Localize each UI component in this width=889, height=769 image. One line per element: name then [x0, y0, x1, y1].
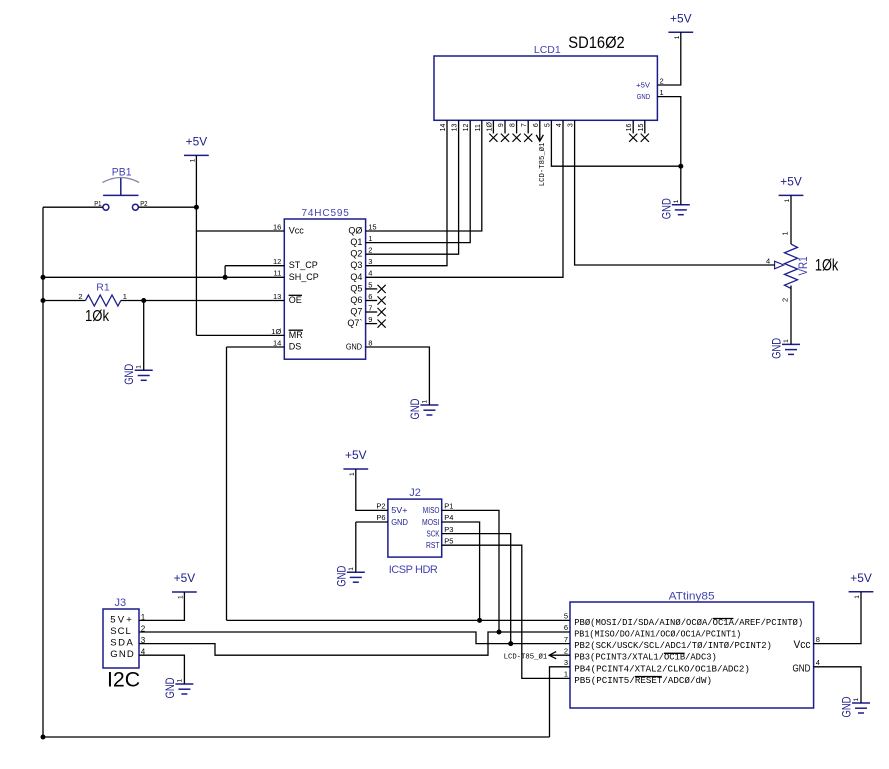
VR1 pin number 1 (rotated): [781, 231, 790, 235]
LCD1 pin number 2: [660, 76, 664, 85]
J3 pin number 2: [141, 624, 146, 633]
svg-text:SCK: SCK: [427, 529, 441, 538]
+5V supply symbol above 74HC595: [184, 135, 209, 163]
node LCD ground join: [678, 164, 683, 169]
wire left vertical bus: [42, 207, 44, 737]
+5V supply symbol at J2: [343, 448, 368, 476]
svg-text:GND: GND: [346, 342, 362, 352]
svg-text:SD16Ø2: SD16Ø2: [568, 33, 624, 52]
svg-text:GND: GND: [637, 92, 651, 101]
svg-text:J3: J3: [115, 597, 127, 609]
svg-text:+5V: +5V: [345, 448, 367, 462]
svg-text:P6: P6: [376, 513, 385, 522]
no-connect X on LCD1 pin 10: [489, 120, 497, 142]
74HC595 right pin number 1: [368, 234, 372, 243]
svg-text:1: 1: [781, 231, 790, 235]
svg-text:4: 4: [368, 269, 372, 278]
wire J3 SCL pin 2 to ATtiny85 PB2: [139, 632, 570, 644]
+5V supply symbol at J3: [172, 571, 197, 599]
wire bus to R1 pin 2: [43, 300, 86, 302]
svg-text:15: 15: [638, 124, 645, 132]
wire Q1 pin 1 to LCD1 pin 12: [366, 120, 471, 242]
node PB0 / MOSI: [477, 618, 482, 623]
svg-text:VR1: VR1: [798, 257, 810, 276]
wire +5V to 74HC595 MR pin 10: [196, 334, 284, 336]
wire J2 RST P5 to ATtiny85 PB5: [442, 545, 570, 678]
svg-text:P1: P1: [444, 502, 453, 511]
svg-text:Q5: Q5: [350, 283, 362, 293]
svg-text:SH_CP: SH_CP: [289, 272, 319, 282]
wire J2 MISO P1 to ATtiny85 PB1: [442, 510, 499, 632]
svg-text:Vcc: Vcc: [289, 226, 305, 236]
svg-text:5V+: 5V+: [391, 506, 408, 515]
svg-text:PB2(SCK/USCK/SCL/ADC1/TØ/INTØ/: PB2(SCK/USCK/SCL/ADC1/TØ/INTØ/PCINT2): [574, 640, 772, 651]
wire PB1 P2 to +5V: [138, 206, 196, 208]
J2 pin names: [391, 506, 440, 550]
74HC595 right pin number 4: [368, 269, 372, 278]
wire Q3 pin 3 to LCD1 pin 14: [366, 120, 447, 265]
wire 74HC595 GND pin 8 to ground: [366, 347, 430, 405]
svg-text:1: 1: [853, 698, 860, 702]
svg-text:Q7: Q7: [350, 307, 362, 317]
svg-text:1: 1: [674, 35, 681, 39]
svg-text:MISO: MISO: [423, 506, 440, 515]
ground symbol at ATtiny85: [842, 697, 871, 718]
74HC595 right pin number 6: [368, 292, 372, 301]
svg-text:2: 2: [78, 292, 82, 301]
node bottom corner: [41, 735, 46, 740]
svg-text:5V+: 5V+: [110, 614, 132, 625]
svg-text:1: 1: [421, 400, 428, 404]
svg-text:7: 7: [521, 123, 528, 127]
svg-text:1: 1: [348, 567, 355, 571]
svg-text:MR: MR: [289, 330, 303, 340]
svg-text:13: 13: [273, 292, 281, 301]
wire PB1 P1 to left bus: [43, 206, 103, 208]
svg-text:LCD-T85_Ø1: LCD-T85_Ø1: [504, 652, 548, 661]
wire 74HC595 DS pin 14: [227, 346, 285, 348]
svg-text:1Øk: 1Øk: [815, 255, 839, 274]
VR1 value 10k: [815, 255, 839, 274]
net label LCD-T85_01 at LCD1 pin 6 (rotated, with arrow): [536, 120, 547, 186]
LCD1 pin labels +5V and GND inside body: [636, 80, 651, 101]
wire Q2 pin 2 to LCD1 pin 13: [366, 120, 459, 254]
ground symbol at R1: [124, 364, 153, 385]
ground symbol at J2: [336, 566, 365, 587]
wire +5V to J2 P2: [356, 469, 388, 510]
svg-text:5: 5: [544, 123, 551, 127]
svg-text:3: 3: [568, 123, 575, 127]
svg-text:+5V: +5V: [186, 135, 208, 149]
LCD1 pin number 12 (rotated): [463, 124, 470, 132]
J3 pin number 3: [141, 636, 146, 645]
svg-text:+5V: +5V: [670, 11, 692, 25]
svg-text:SCL: SCL: [110, 626, 131, 637]
svg-text:2: 2: [660, 76, 664, 85]
wire R1 pin 1 to 74HC595 OE pin 13: [121, 300, 285, 302]
J2 pin designator P5: [444, 536, 453, 545]
svg-text:11: 11: [274, 269, 282, 278]
ATtiny85 left pin number 6: [564, 623, 568, 632]
LCD1 pin number 10 (rotated): [486, 122, 493, 132]
svg-text:LCD1: LCD1: [534, 44, 561, 56]
svg-text:GND: GND: [793, 663, 811, 674]
no-connect X on 74HC595 output: [366, 320, 386, 328]
svg-text:2: 2: [781, 298, 790, 302]
74HC595 right pin number 9: [368, 315, 372, 324]
wire J3 SDA pin 3 to ATtiny85 PB1: [139, 632, 570, 655]
74HC595 left pin number 10: [271, 327, 281, 336]
74HC595 right pin number 2: [368, 246, 372, 255]
wire J2 ground drop: [355, 522, 357, 572]
svg-text:RST: RST: [426, 541, 440, 550]
svg-text:7: 7: [564, 635, 568, 644]
LCD1 pin number 1: [660, 88, 664, 97]
svg-text:DS: DS: [289, 342, 302, 352]
LCD1 pin number 3 (rotated): [568, 123, 575, 127]
74HC595 right pin number 8: [368, 338, 372, 347]
wire J3 5V+ pin 1 to +5V: [139, 592, 184, 620]
wire LCD1 pin 3 to VR1 wiper: [575, 120, 775, 265]
PB1 pin designator P1: [94, 201, 101, 208]
svg-text:1Øk: 1Øk: [85, 308, 110, 325]
74HC595 right pin number 15: [368, 222, 376, 231]
svg-text:GND: GND: [842, 697, 854, 718]
wire R1 node to ground: [143, 301, 145, 371]
no-connect X on LCD1 pin 15: [641, 120, 649, 142]
LCD module LCD1 SD1602 body: [434, 44, 657, 120]
+5V supply symbol at LCD1: [668, 11, 693, 39]
LCD1 pin number 14 (rotated): [440, 124, 447, 132]
svg-text:GND: GND: [165, 678, 177, 699]
microcontroller ATtiny85 body: [570, 591, 814, 708]
74HC595 left pin number 13: [273, 292, 281, 301]
svg-text:QØ: QØ: [348, 226, 362, 236]
svg-text:Q1: Q1: [350, 237, 362, 247]
no-connect X on LCD1 pin 9: [501, 120, 509, 142]
wire Q4 pin 4 to LCD1 pin 4: [366, 120, 563, 277]
J2 pin designator P1: [444, 502, 453, 511]
svg-text:R1: R1: [96, 281, 110, 293]
svg-text:3: 3: [368, 257, 372, 266]
shift register 74HC595 body: [284, 208, 365, 359]
wire LCD1 pin 1 to ground: [657, 97, 680, 205]
svg-text:1: 1: [189, 158, 196, 162]
svg-text:1: 1: [784, 198, 791, 202]
svg-text:GND: GND: [772, 338, 784, 359]
svg-text:PBØ(MOSI/DI/SDA/AINØ/OCØA/OC1A: PBØ(MOSI/DI/SDA/AINØ/OCØA/OC1A/AREF/PCIN…: [574, 617, 803, 628]
svg-text:1: 1: [177, 595, 184, 599]
svg-text:12: 12: [273, 257, 281, 266]
svg-text:ST_CP: ST_CP: [289, 260, 318, 270]
svg-text:PB4(PCINT4/XTAL2/CLKO/OC1B/ADC: PB4(PCINT4/XTAL2/CLKO/OC1B/ADC2): [574, 663, 750, 674]
J3 pin number 4: [141, 648, 146, 657]
svg-text:6: 6: [533, 123, 540, 127]
svg-text:GND: GND: [661, 198, 673, 219]
svg-text:Q4: Q4: [350, 272, 362, 282]
svg-text:7: 7: [368, 303, 372, 312]
LCD1 pin number 4 (rotated): [556, 123, 563, 127]
LCD1 pin number 7 (rotated): [521, 123, 528, 127]
net label LCD-T85_01 at ATtiny85 PB3 (with arrow): [504, 652, 570, 662]
ATtiny85 left pin number 7: [564, 635, 568, 644]
74HC595 left pin number 12: [273, 257, 281, 266]
svg-text:J2: J2: [409, 487, 421, 499]
svg-text:74HC595: 74HC595: [302, 208, 350, 219]
+5V supply symbol at ATtiny85: [849, 571, 874, 599]
svg-text:+5V: +5V: [174, 571, 196, 585]
svg-text:GND: GND: [336, 566, 348, 587]
wire DS vertical down: [226, 347, 228, 620]
74HC595 right pin number 7: [368, 303, 372, 312]
svg-text:Q2: Q2: [350, 249, 362, 259]
wire ATtiny85 GND pin 4 to ground: [814, 667, 861, 703]
svg-text:+5V: +5V: [850, 571, 872, 585]
node +5V / PB1 P2: [194, 205, 199, 210]
svg-text:3: 3: [564, 658, 568, 667]
svg-text:4: 4: [816, 658, 820, 667]
svg-text:Q7`: Q7`: [347, 318, 362, 328]
wire LCD1 pin 5 to ground net: [551, 120, 680, 166]
svg-text:8: 8: [510, 123, 517, 127]
svg-text:P4: P4: [444, 513, 453, 522]
wire J2 MOSI P4 to ATtiny85 PB0: [442, 522, 480, 620]
wire J2 P6 to ground branch: [356, 521, 388, 523]
LCD1 pin number 9 (rotated): [498, 123, 505, 127]
no-connect X on LCD1 pin 16: [629, 120, 637, 142]
svg-text:LCD-T85_Ø1: LCD-T85_Ø1: [538, 142, 547, 186]
wire LCD1 pin 2 to +5V: [657, 32, 680, 85]
svg-text:GND: GND: [110, 649, 134, 660]
J2 pin designator P2: [376, 502, 385, 511]
svg-text:13: 13: [452, 124, 459, 132]
svg-text:16: 16: [273, 222, 281, 231]
wire +5V vertical feed: [195, 155, 197, 335]
svg-text:11: 11: [475, 124, 482, 131]
no-connect X on 74HC595 output: [366, 308, 386, 316]
svg-text:MOSI: MOSI: [422, 518, 440, 527]
J3 pin number 1: [141, 613, 146, 622]
LCD1 pin number 5 (rotated): [544, 123, 551, 127]
LCD1 pin number 15 (rotated): [638, 124, 645, 132]
wire bottom run to ATtiny85 PB4: [43, 736, 550, 738]
wire up to ATtiny85 PB4: [550, 667, 571, 737]
ATtiny85 right pin number 8: [816, 635, 820, 644]
J2 pin designator P6: [376, 513, 385, 522]
LCD1 pin number 6 (rotated): [533, 123, 540, 127]
ground symbol at 74HC595: [410, 399, 439, 420]
ATtiny85 right pin number 4: [816, 658, 820, 667]
node bus SH_CP tap: [41, 275, 46, 280]
LCD1 pin number 13 (rotated): [452, 124, 459, 132]
VR1 pin number 2 (rotated): [781, 298, 790, 302]
R1 pin number 1: [123, 292, 127, 301]
svg-text:5: 5: [368, 280, 372, 289]
svg-text:1Ø: 1Ø: [486, 122, 493, 132]
svg-text:9: 9: [368, 315, 372, 324]
node PB2 / SCK: [508, 641, 513, 646]
svg-text:P5: P5: [444, 536, 453, 545]
no-connect X on 74HC595 output: [366, 296, 386, 304]
wire ATtiny85 Vcc pin 8 to +5V: [814, 592, 861, 644]
svg-text:1: 1: [564, 670, 568, 679]
74HC595 right pin number 3: [368, 257, 372, 266]
ATtiny85 left pin number 3: [564, 658, 568, 667]
svg-text:PB1(MISO/DO/AIN1/OCØ/OC1A/PCIN: PB1(MISO/DO/AIN1/OCØ/OC1A/PCINT1): [574, 629, 741, 640]
svg-text:1: 1: [136, 365, 143, 369]
LCD1 pin number 8 (rotated): [510, 123, 517, 127]
svg-text:9: 9: [498, 123, 505, 127]
svg-text:1: 1: [673, 199, 680, 203]
VR1 pin number 4: [766, 257, 770, 266]
wire ST_CP join to SH_CP: [224, 266, 226, 278]
ground symbol at LCD1: [661, 198, 690, 219]
R1 pin number 2: [78, 292, 82, 301]
value label SD1602: [568, 33, 624, 52]
svg-text:GND: GND: [410, 399, 422, 420]
74HC595 right pin number 5: [368, 280, 372, 289]
svg-text:6: 6: [564, 623, 568, 632]
svg-text:ICSP HDR: ICSP HDR: [389, 564, 438, 576]
svg-text:14: 14: [273, 338, 281, 347]
svg-text:2: 2: [564, 646, 568, 655]
node ST_CP-SH_CP junction: [223, 275, 228, 280]
svg-text:P3: P3: [444, 525, 453, 534]
svg-text:+5V: +5V: [780, 175, 802, 189]
no-connect X on 74HC595 output: [366, 285, 386, 293]
svg-text:6: 6: [368, 292, 372, 301]
wire +5V to VR1 pin 1: [790, 195, 792, 244]
wire bus to 74HC595 SH_CP pin 11: [43, 276, 284, 278]
svg-text:4: 4: [766, 257, 770, 266]
svg-text:Vcc: Vcc: [794, 639, 811, 651]
wire +5V to 74HC595 Vcc pin 16: [196, 230, 284, 232]
node PB1 / MISO: [497, 630, 502, 635]
svg-text:8: 8: [816, 635, 820, 644]
potentiometer VR1 10k: [775, 244, 810, 288]
ATtiny85 left pin number 2: [564, 646, 568, 655]
svg-text:2: 2: [368, 246, 372, 255]
74HC595 left pin names: [289, 226, 319, 352]
svg-text:8: 8: [368, 338, 372, 347]
J2 pin designator P4: [444, 513, 453, 522]
R1 value 10k: [85, 308, 110, 325]
wire J3 GND pin 4 to ground: [139, 655, 184, 684]
wire 74HC595 ST_CP pin 12: [225, 265, 284, 267]
svg-text:12: 12: [463, 124, 470, 132]
ground symbol at J3: [165, 678, 194, 699]
svg-text:1Ø: 1Ø: [271, 327, 281, 336]
resistor R1 10k: [86, 281, 121, 306]
wire Q0 pin 15 to LCD1 pin 11: [366, 120, 482, 231]
svg-text:14: 14: [440, 124, 447, 132]
svg-text:Q3: Q3: [350, 260, 362, 270]
node R1 / OE / ground: [141, 298, 146, 303]
PB1 pin designator P2: [140, 201, 147, 208]
svg-text:1: 1: [349, 472, 356, 476]
ATtiny85 left pin names PB0-PB5: [574, 617, 803, 686]
svg-text:1: 1: [123, 292, 127, 301]
svg-text:15: 15: [368, 222, 376, 231]
ATtiny85 right pin names Vcc GND: [793, 639, 811, 674]
svg-text:5: 5: [564, 612, 568, 621]
svg-text:P2: P2: [376, 502, 385, 511]
svg-text:1: 1: [783, 339, 790, 343]
74HC595 left pin number 11: [274, 269, 282, 278]
wire J2 SCK P3 to ATtiny85 PB2: [442, 534, 511, 644]
svg-text:1: 1: [176, 679, 183, 683]
wire DS to ATtiny85 PB0 pin 5: [227, 619, 571, 621]
no-connect X on LCD1 pin 7: [524, 120, 532, 142]
ATtiny85 left pin number 5: [564, 612, 568, 621]
+5V supply symbol at VR1: [779, 175, 804, 203]
svg-text:1: 1: [660, 88, 664, 97]
no-connect X on LCD1 pin 8: [513, 120, 521, 142]
J3 pin names: [110, 614, 134, 660]
svg-text:+5V: +5V: [636, 80, 651, 89]
svg-text:PB1: PB1: [112, 167, 132, 179]
value label I2C: [107, 668, 140, 691]
svg-text:1: 1: [368, 234, 372, 243]
svg-text:ATtiny85: ATtiny85: [669, 591, 715, 603]
svg-text:Q6: Q6: [350, 295, 362, 305]
node bus R1 tap: [41, 298, 46, 303]
svg-text:PB3(PCINT3/XTAL1/OC1B/ADC3): PB3(PCINT3/XTAL1/OC1B/ADC3): [574, 652, 717, 663]
ATtiny85 left pin number 1: [564, 670, 568, 679]
svg-text:1: 1: [854, 595, 861, 599]
ground symbol at VR1: [772, 338, 801, 359]
J2 pin designator P3: [444, 525, 453, 534]
LCD1 pin number 16 (rotated): [626, 124, 633, 132]
svg-text:GND: GND: [124, 364, 136, 385]
LCD1 pin number 11 (rotated): [475, 124, 482, 131]
connector J3 I2C body: [103, 597, 139, 668]
svg-text:OE: OE: [289, 295, 302, 305]
svg-text:16: 16: [626, 124, 633, 132]
74HC595 left pin number 14: [273, 338, 281, 347]
74HC595 right pin names: [346, 226, 363, 352]
svg-text:4: 4: [556, 123, 563, 127]
pushbutton PB1: [103, 167, 140, 211]
connector J2 ICSP HDR body: [388, 487, 442, 576]
wire VR1 pin 2 to ground: [790, 286, 792, 345]
svg-text:GND: GND: [391, 518, 408, 527]
svg-text:SDA: SDA: [110, 638, 133, 649]
svg-text:I2C: I2C: [107, 668, 140, 691]
74HC595 left pin number 16: [273, 222, 281, 231]
